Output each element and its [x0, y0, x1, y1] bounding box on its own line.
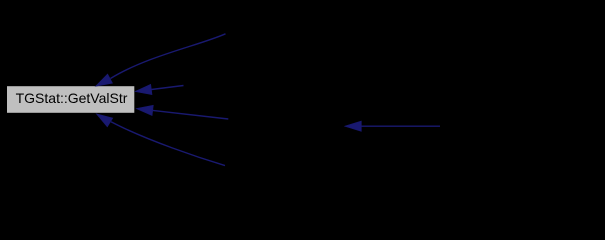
- edge: far-right horizontal arrow (caller of caller) wire: [345, 121, 440, 131]
- edge: caller 1 (top curve) wire: [96, 34, 226, 87]
- node: caller D (far right, invisible black-on-black): [440, 113, 590, 139]
- edge: caller 2 (short upper straight arrow) wire: [135, 84, 184, 94]
- node TGStat::GetValStr (current function): [7, 86, 134, 113]
- node: caller B (upper middle, invisible black-on-black): [184, 73, 324, 99]
- edge: caller 3 (lower straight arrow) wire: [136, 105, 228, 119]
- svg-text:TGStat::GetValStr: TGStat::GetValStr: [16, 90, 128, 106]
- node: caller A (top, invisible black-on-black): [226, 21, 376, 47]
- edge: caller 4 (bottom curve) wire: [96, 114, 225, 166]
- node: caller C (middle, invisible black-on-black): [228, 110, 345, 136]
- node: caller E (bottom, invisible black-on-black): [225, 153, 375, 179]
